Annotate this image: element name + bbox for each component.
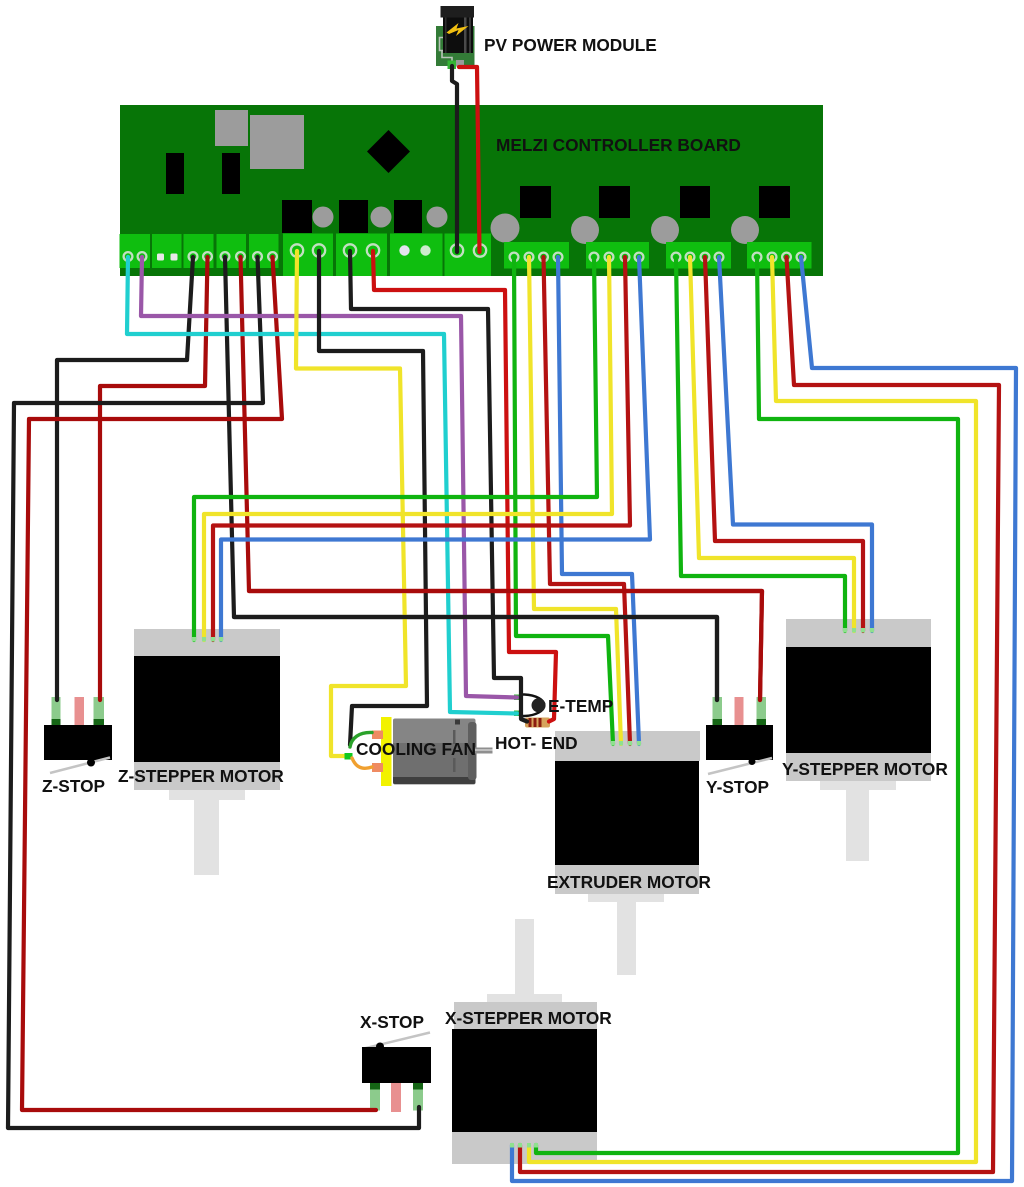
mosfet Q1 <box>282 200 312 233</box>
terminal block I (power in) <box>445 234 492 277</box>
stub tips Y motor <box>843 628 847 633</box>
X-stop lever <box>362 1033 430 1050</box>
wire Z motor yellow <box>204 257 612 640</box>
extruder motor cap <box>555 731 700 761</box>
Z-stop pin 1 <box>52 697 61 726</box>
Y-stop pin feet <box>713 719 723 726</box>
svg-text:MELZI CONTROLLER BOARD: MELZI CONTROLLER BOARD <box>496 135 741 155</box>
wire PV red <box>459 67 480 252</box>
svg-text:E-TEMP: E-TEMP <box>548 696 613 716</box>
Z stepper motor shaft <box>169 790 245 800</box>
wire fan yellow <box>296 251 406 756</box>
Melzi controller board PCB <box>120 105 823 276</box>
PV lightning bolt <box>447 23 469 36</box>
terminal block G (hot-end heater) <box>336 234 387 277</box>
pin rings block K <box>590 253 599 262</box>
wire X-stop red <box>22 257 376 1110</box>
extruder motor base <box>555 865 699 894</box>
cooling fan nose right <box>468 722 477 780</box>
wire Z-stop black <box>57 257 193 700</box>
Y-stop pin 1 <box>713 697 723 726</box>
IC gray square large U4 <box>250 115 304 169</box>
wire X motor red <box>520 257 999 1172</box>
X stepper motor cap <box>454 1002 597 1029</box>
pin rings block G <box>344 244 356 256</box>
capacitor CA4 large <box>491 214 520 243</box>
fan wire end tab yellow <box>345 753 353 760</box>
black component C1 <box>166 153 184 194</box>
X-stop pin 3 <box>413 1083 423 1111</box>
terminal block M (X motor) <box>747 242 812 269</box>
wire fan black <box>319 251 427 745</box>
capacitor CA1 <box>313 207 334 228</box>
capacitor CA7 <box>731 216 759 244</box>
terminal block D (Y-stop) <box>217 234 247 268</box>
wire Y-stop black <box>225 257 717 700</box>
cooling fan yellow frame <box>381 717 392 786</box>
svg-text:COOLING FAN: COOLING FAN <box>356 739 476 759</box>
Z stepper motor cap <box>134 629 280 656</box>
X-stop pin 2 <box>391 1083 401 1112</box>
PV power module PCB <box>436 26 475 66</box>
Y-stop lever <box>708 758 772 774</box>
E-temp tab lower <box>514 711 521 717</box>
capacitor CA3 <box>427 207 448 228</box>
svg-text:EXTRUDER MOTOR: EXTRUDER MOTOR <box>547 872 711 892</box>
wire Y motor green <box>676 257 845 631</box>
black diamond component D1 <box>367 130 410 173</box>
PV capacitor sheen <box>464 12 467 53</box>
X stepper motor body <box>452 1029 597 1132</box>
Y stepper motor cap <box>786 619 931 647</box>
Y-stop lever tip <box>749 758 756 765</box>
cooling fan body <box>393 719 476 785</box>
terminal block L (Y motor) <box>666 242 731 269</box>
stub tips Z motor <box>192 628 874 1148</box>
SECTION: labels <box>42 35 948 1032</box>
X-stop pin feet <box>370 1083 380 1090</box>
pin rings block E <box>253 252 262 261</box>
wire Y-stop red <box>241 257 763 700</box>
svg-text:Z-STEPPER MOTOR: Z-STEPPER MOTOR <box>118 766 284 786</box>
hot-end heater bands <box>529 718 532 727</box>
E-temp thermistor bead <box>532 698 546 712</box>
wire X motor blue <box>512 257 1016 1181</box>
hot-end heater body <box>525 718 550 728</box>
cooling fan shaft <box>475 748 493 754</box>
Y-stop pin 3 <box>757 697 767 726</box>
mosfet Q4 <box>520 186 551 218</box>
mosfet Q2 <box>339 200 368 233</box>
IC gray square small U3 <box>215 110 248 146</box>
wire X-stop black <box>8 257 419 1128</box>
X stepper motor base <box>452 1132 597 1164</box>
spare pads block H <box>399 245 409 255</box>
Z-stop lever tip <box>87 759 95 767</box>
stub tips extruder motor <box>611 741 615 746</box>
pin rings block D <box>221 252 230 261</box>
wire Z motor green <box>194 257 597 640</box>
Z-stop lever <box>50 758 110 774</box>
wire Y motor yellow <box>690 257 854 631</box>
fan lead orange arc <box>352 758 372 768</box>
Z-stop pin feet <box>52 719 61 726</box>
wire Y-stop black top segment <box>234 617 717 700</box>
E-temp tab upper <box>514 695 521 701</box>
terminal block J (extruder motor) <box>504 242 569 269</box>
terminal block K (Z motor) <box>586 242 649 269</box>
Z-stop pin 3 <box>94 697 105 726</box>
PV capacitor body <box>443 12 473 53</box>
Y stepper motor body <box>786 647 931 753</box>
PV terminal gray <box>456 60 464 67</box>
wire X motor green <box>536 257 958 1153</box>
wire extruder blue <box>558 257 639 744</box>
svg-text:X-STOP: X-STOP <box>360 1012 424 1032</box>
cooling fan orange tab lower <box>372 763 383 772</box>
pin rings block I <box>451 244 463 256</box>
wire extruder green <box>514 257 613 744</box>
pin rings block M <box>753 253 762 262</box>
wire extruder yellow <box>529 257 621 744</box>
cooling fan body bottom edge <box>393 777 476 784</box>
Z stepper motor body <box>134 656 280 762</box>
terminal block C (Z-stop) <box>184 234 214 268</box>
mosfet Q7 <box>759 186 790 218</box>
svg-text:HOT- END: HOT- END <box>495 733 578 753</box>
mosfet Q5 <box>599 186 630 218</box>
Z-stop pin 2 <box>75 697 85 729</box>
pin rings block C <box>189 252 198 261</box>
wire extruder red <box>544 257 631 744</box>
wire Y motor red <box>705 257 863 631</box>
svg-text:Y-STEPPER MOTOR: Y-STEPPER MOTOR <box>782 759 948 779</box>
Y stepper motor shaft <box>820 781 896 790</box>
extruder motor body <box>555 761 699 865</box>
svg-text:Z-STOP: Z-STOP <box>42 776 105 796</box>
wire Z motor blue <box>221 257 650 640</box>
cooling fan detail marks <box>455 720 460 725</box>
cooling fan orange tab upper <box>372 731 383 740</box>
extruder motor shaft <box>588 894 664 902</box>
spare pads block B <box>157 254 164 261</box>
PV terminal green <box>448 61 457 70</box>
pin rings block F <box>291 244 303 256</box>
wire heater red <box>373 251 556 722</box>
capacitor CA6 <box>651 216 679 244</box>
SECTION: components <box>44 619 931 1164</box>
stub tips X motor <box>510 1143 514 1148</box>
pin rings block J <box>510 253 519 262</box>
wire Z motor red <box>213 257 630 640</box>
black component C2 <box>222 153 240 194</box>
Y-stop body <box>706 725 773 760</box>
wire Z-stop red <box>100 257 208 700</box>
Z-stop body <box>44 725 112 760</box>
PV pcb trace <box>440 38 453 63</box>
X-stop pin 1 <box>370 1083 380 1111</box>
cooling fan body lower shade <box>393 743 476 778</box>
wire thermistor purple <box>141 257 517 698</box>
wire Y-stop red top segment <box>249 591 762 700</box>
wire Y motor blue <box>719 257 872 631</box>
SECTION: board <box>120 105 824 276</box>
capacitor CA5 <box>571 216 599 244</box>
X-stop body <box>362 1047 431 1083</box>
pin rings block L <box>672 253 681 262</box>
terminal block A (thermistor) <box>120 234 151 268</box>
wire X motor yellow <box>529 257 976 1162</box>
X-stop lever tip <box>376 1043 384 1051</box>
Y stepper motor base <box>786 753 931 781</box>
X stepper motor shaft <box>515 919 534 1002</box>
pin rings block A <box>124 244 806 261</box>
terminal block H (bed) <box>390 234 443 277</box>
svg-text:PV POWER MODULE: PV POWER MODULE <box>484 35 657 55</box>
mosfet Q6 <box>680 186 710 218</box>
capacitor CA2 <box>371 207 392 228</box>
svg-text:Y-STOP: Y-STOP <box>706 777 769 797</box>
wire heater black <box>350 251 527 722</box>
E-temp thermistor outline <box>522 695 545 717</box>
wire PV black <box>452 66 457 252</box>
PV capacitor cap <box>441 6 475 18</box>
Z stepper motor base <box>134 762 280 790</box>
svg-text:X-STEPPER MOTOR: X-STEPPER MOTOR <box>445 1008 612 1028</box>
terminal block B (spare) <box>152 234 182 268</box>
mosfet Q3 <box>394 200 422 233</box>
fan lead green arc <box>350 732 372 747</box>
Y-stop pin 2 <box>735 697 744 729</box>
terminal block E (X-stop) <box>249 234 279 268</box>
SECTION: pv <box>436 6 475 69</box>
wire thermistor cyan <box>127 257 517 714</box>
terminal block F (fan) <box>283 234 333 277</box>
